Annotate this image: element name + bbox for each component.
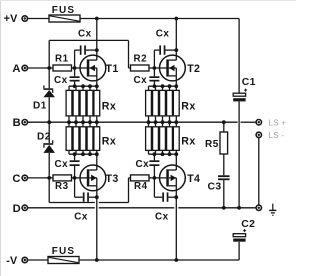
svg-text:Rx: Rx: [102, 100, 116, 112]
terminal B: [13, 117, 28, 129]
svg-text:Cx: Cx: [155, 211, 169, 222]
svg-text:C3: C3: [208, 181, 222, 192]
terminal -V: [6, 255, 27, 267]
resistor bank Rx (top-left, 5x): [66, 84, 116, 124]
node: -V rail / T4 drain: [174, 258, 178, 262]
wire C2 to -V rail: [238, 242, 240, 260]
terminal C: [12, 173, 27, 185]
capacitor Cx (T2 gate-source): [134, 68, 160, 86]
capacitor Cx (T2 gate-drain): [154, 28, 176, 68]
svg-text:LS -: LS -: [269, 131, 285, 140]
transistor T1: [80, 55, 119, 81]
resistor R3: [53, 175, 72, 192]
terminal +V: [4, 13, 28, 25]
resistor R5: [205, 122, 228, 154]
svg-text:FUS: FUS: [52, 246, 75, 257]
wire D ground line: [28, 207, 257, 209]
node A junction: [47, 66, 51, 70]
wire T4 source: [175, 154, 177, 170]
node D ground terminal: [256, 205, 261, 210]
svg-text:D1: D1: [33, 101, 47, 112]
svg-text:T2: T2: [187, 63, 200, 75]
wire +V rail: [28, 18, 240, 20]
svg-text:R3: R3: [55, 181, 69, 192]
ground: [269, 204, 276, 216]
node Cx/T2 drain: [174, 48, 178, 52]
wire R1 to T1 gate: [72, 67, 88, 69]
svg-text:-V: -V: [6, 255, 18, 267]
wire T4 drain: [175, 186, 177, 260]
wire C under-link to R4: [49, 178, 130, 203]
wire A line: [28, 67, 53, 69]
capacitor Cx (T3 gate-drain): [74, 178, 97, 222]
capacitor Cx (T4 gate-drain): [154, 178, 176, 222]
capacitor Cx (T3 gate-source): [55, 154, 80, 178]
node C junction: [47, 176, 51, 180]
terminal D: [13, 203, 28, 215]
wire R2 to T2 gate: [149, 67, 167, 69]
svg-text:C: C: [12, 173, 20, 185]
node D/C-rail: [237, 206, 241, 210]
wire LS- to ground: [258, 138, 260, 205]
svg-text:Rx: Rx: [102, 135, 116, 147]
svg-text:R2: R2: [134, 54, 148, 65]
capacitor Cx (T4 gate-source): [136, 154, 160, 178]
svg-text:Rx: Rx: [181, 100, 195, 112]
svg-text:Cx: Cx: [136, 159, 150, 170]
wire C1 to ground line: [238, 102, 240, 208]
capacitor C1: [233, 77, 256, 101]
svg-text:D: D: [13, 203, 21, 215]
node Cx/T4 drain: [174, 195, 178, 199]
node: +V rail / T2 drain: [174, 17, 178, 21]
fuse FUS (top): [49, 5, 80, 22]
transistor T3: [80, 165, 119, 191]
svg-text:T4: T4: [187, 173, 200, 185]
svg-text:A: A: [12, 63, 20, 75]
node: -V rail / T3 drain: [95, 258, 99, 262]
resistor R1: [53, 54, 72, 72]
fuse FUS (bottom): [48, 246, 79, 263]
wire R3 to T3 gate: [72, 177, 88, 179]
svg-text:C2: C2: [241, 219, 255, 230]
wire -V rail: [28, 259, 240, 261]
svg-text:Cx: Cx: [156, 28, 170, 39]
wire C line: [28, 177, 53, 179]
node T3 gate: [73, 176, 77, 180]
terminal LS+: [256, 118, 286, 127]
node T1 gate: [73, 66, 77, 70]
wire R4 to T4 gate: [149, 177, 167, 179]
terminal LS-: [256, 131, 284, 140]
transistor T2: [160, 55, 201, 81]
svg-text:Cx: Cx: [55, 159, 69, 170]
capacitor C2: [233, 219, 255, 242]
terminal A: [12, 63, 27, 75]
node B/R5: [222, 120, 226, 124]
node Cx/T3 drain: [95, 195, 99, 199]
resistor bank Rx (bottom-right, 5x): [146, 122, 196, 156]
node T4 gate: [153, 176, 157, 180]
svg-text:Cx: Cx: [74, 211, 88, 222]
wire T1 drain: [96, 19, 98, 61]
wire T1 source: [96, 76, 98, 86]
zener diode D1: [33, 68, 55, 122]
resistor R4: [131, 175, 150, 192]
svg-text:C1: C1: [242, 77, 256, 88]
node B/diodes junction: [47, 120, 51, 124]
transistor T4: [160, 165, 201, 191]
svg-text:D2: D2: [37, 132, 51, 143]
node D/C3: [222, 206, 226, 210]
capacitor Cx (T1 gate-drain): [75, 28, 97, 68]
svg-text:T3: T3: [106, 173, 119, 185]
node Cx/T1 drain: [95, 48, 99, 52]
node T2 gate: [153, 66, 157, 70]
resistor bank Rx (bottom-left, 5x): [66, 122, 116, 156]
capacitor C3: [208, 154, 230, 208]
svg-text:R1: R1: [55, 54, 69, 65]
svg-text:Cx: Cx: [54, 75, 68, 86]
wire A over-link to R2: [49, 40, 130, 68]
zener diode D2: [37, 122, 55, 178]
capacitor Cx (T1 gate-source): [54, 68, 80, 86]
wire +V rail corner down: [238, 19, 240, 94]
wire T3 drain: [96, 186, 98, 260]
svg-text:B: B: [13, 117, 21, 129]
svg-text:T1: T1: [106, 63, 119, 75]
wire T3 source: [96, 154, 98, 170]
resistor bank Rx (top-right, 5x): [146, 84, 196, 124]
svg-text:Cx: Cx: [78, 28, 92, 39]
svg-text:Cx: Cx: [134, 75, 148, 86]
resistor R2: [131, 54, 150, 72]
wire T2 drain: [175, 19, 177, 61]
wire B line: [28, 121, 257, 123]
wire T2 source: [175, 76, 177, 86]
svg-text:Rx: Rx: [181, 135, 195, 147]
node: +V rail / T1 drain: [95, 17, 99, 21]
svg-text:R4: R4: [134, 181, 148, 192]
svg-text:LS +: LS +: [269, 118, 287, 127]
svg-text:R5: R5: [205, 139, 219, 150]
svg-text:+V: +V: [4, 13, 19, 25]
